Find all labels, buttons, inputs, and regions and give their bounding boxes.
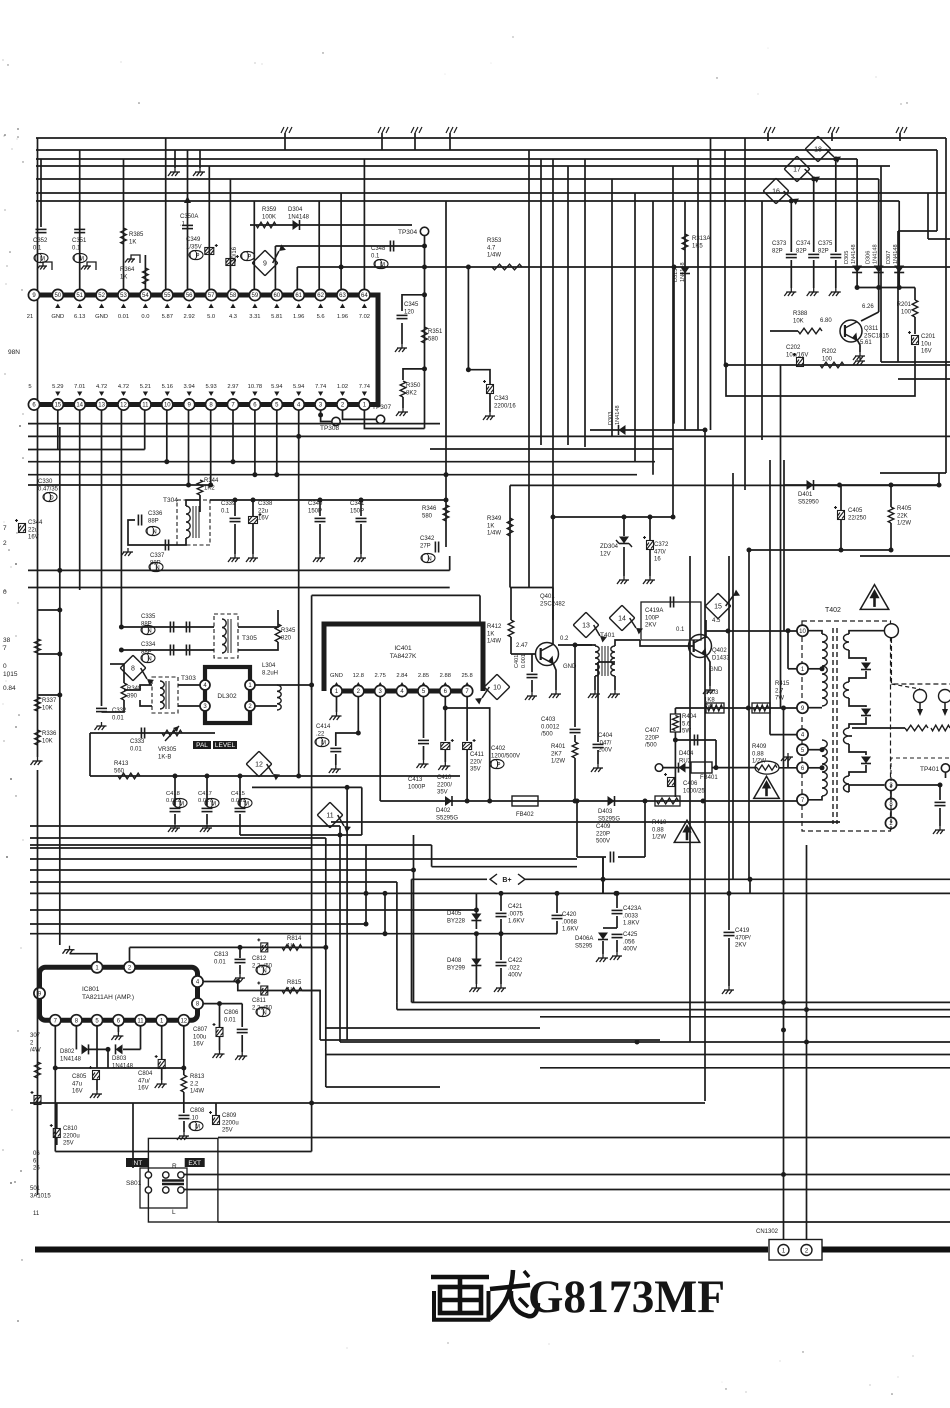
- svg-text:8: 8: [131, 665, 135, 672]
- wire bot bus 1151: [55, 1151, 311, 1153]
- T402 top-right terminal: [884, 624, 898, 638]
- wire gnd stub R409: [787, 757, 789, 768]
- junction v340 top: [338, 833, 343, 838]
- svg-text:DL302: DL302: [217, 693, 237, 700]
- IC301 pin 5: [271, 399, 282, 410]
- chassis mark 3: [411, 127, 422, 133]
- C414 oval: [315, 737, 329, 746]
- wire pin7 link: [808, 796, 822, 800]
- pin 60 arrow: [274, 304, 279, 309]
- IC301 pin 10: [162, 399, 173, 410]
- junction 801 mid: [575, 799, 580, 804]
- transistor Q311: [840, 320, 862, 342]
- transistor Q402: [689, 635, 712, 658]
- zener ZD304: [619, 537, 629, 544]
- junction C338: [251, 498, 256, 503]
- wire T303 left a: [124, 685, 152, 690]
- capacitor C349: [205, 244, 218, 255]
- wire R412-base: [511, 653, 536, 655]
- wire v325: [325, 838, 327, 1087]
- svg-text:12: 12: [180, 1018, 187, 1024]
- svg-text:5.94: 5.94: [271, 384, 283, 390]
- pin 57 arrow: [209, 304, 214, 309]
- svg-text:P: P: [496, 762, 500, 768]
- S801 contact 4: [145, 1187, 151, 1193]
- junction C418: [173, 774, 178, 779]
- svg-text:0.0: 0.0: [141, 314, 149, 320]
- resistor R337: [35, 697, 41, 711]
- wire bot bus 1222: [218, 1221, 950, 1223]
- wire C202 return: [726, 346, 915, 396]
- wire z361: [361, 787, 363, 835]
- C337 NPO oval: [149, 562, 163, 571]
- svg-text:T402: T402: [825, 607, 841, 614]
- wire C345 lower: [401, 323, 403, 344]
- T402 pin 9: [797, 702, 808, 713]
- node marker 15: [705, 590, 740, 619]
- junction ZD left: [551, 515, 556, 520]
- wire p12 drop: [183, 1026, 185, 1075]
- wire R404-D404: [674, 740, 676, 797]
- node marker 14: [609, 605, 643, 634]
- VR305 arrow: [165, 726, 179, 741]
- S801 wiper bar: [162, 1181, 184, 1185]
- resistor R359: [256, 222, 276, 228]
- wire v366: [365, 845, 367, 924]
- wire R348 bot: [102, 700, 125, 712]
- IC301 pin 8: [206, 399, 217, 410]
- wire pin51 riser: [79, 150, 81, 289]
- svg-text:R359100K: R359100K: [262, 207, 277, 220]
- wire p4 line 981: [203, 981, 238, 983]
- IC801 pin 6b: [113, 1015, 124, 1026]
- wire pin13 drop: [101, 410, 103, 700]
- wire C403 column: [574, 645, 576, 727]
- IC301 pin 60: [271, 289, 282, 300]
- wire p11 drop: [140, 1026, 142, 1050]
- IC301 pin 12: [118, 399, 129, 410]
- junction CN2b: [804, 1007, 809, 1012]
- junction pin63/y267: [339, 265, 344, 270]
- wire C407 right: [715, 740, 717, 768]
- pin 5 arrow: [274, 392, 279, 397]
- wire sub bus y474: [28, 474, 637, 476]
- IC401 pin2 arrow: [356, 682, 361, 687]
- IC801 pin 4: [192, 976, 203, 987]
- node marker 10: [475, 674, 510, 704]
- junction L304 out: [309, 683, 314, 688]
- wire right v881: [880, 166, 882, 362]
- junction pin10 bus: [164, 459, 169, 464]
- diode D306: [874, 266, 884, 273]
- svg-text:51: 51: [76, 293, 83, 299]
- wire pin63 riser: [340, 193, 342, 289]
- svg-text:3.94: 3.94: [184, 384, 196, 390]
- wire right v946: [945, 138, 947, 473]
- wire pin3-8: [890, 791, 892, 797]
- svg-text:M: M: [179, 801, 184, 807]
- ground C410: [438, 762, 450, 770]
- left resistor fragment: [35, 1062, 41, 1078]
- wire R415 line 708: [675, 707, 802, 709]
- wire low h1067: [540, 1067, 950, 1069]
- wire T401 prim top: [575, 645, 595, 646]
- junction C409 tap: [601, 877, 606, 882]
- wire pin56 riser: [187, 150, 189, 289]
- junction R814 out: [323, 945, 328, 950]
- wire pin53 riser: [123, 159, 125, 289]
- svg-text:98N: 98N: [8, 349, 20, 356]
- T402 pin 10: [797, 625, 808, 636]
- T305 winding: [222, 619, 226, 653]
- resistor R410: [655, 796, 680, 806]
- wire C373 column: [790, 201, 792, 252]
- wire R388 left: [770, 330, 798, 332]
- wire vertical v733: [732, 473, 734, 879]
- resistor R813: [181, 1075, 187, 1092]
- T402 pin 4: [797, 729, 808, 740]
- wire pin50 riser fragment: [40, 159, 42, 227]
- ground R202: [853, 357, 865, 365]
- svg-text:N: N: [262, 968, 266, 974]
- wire low corner 1009: [396, 1002, 398, 1009]
- junction pin7 bus: [231, 459, 236, 464]
- T402 secondary w1: [844, 634, 849, 650]
- IC401 pin1 arrow: [334, 682, 339, 687]
- svg-text:18: 18: [814, 146, 822, 153]
- svg-text:PAL: PAL: [196, 742, 208, 749]
- wire vertical v745: [744, 138, 746, 490]
- diode D307: [894, 266, 904, 273]
- capacitor C334b: [186, 645, 189, 656]
- junction C813: [238, 945, 243, 950]
- resistor VR305: [162, 730, 182, 736]
- wire bus y894: [30, 892, 950, 894]
- transistor Q401: [536, 643, 559, 666]
- capacitor C413: [418, 740, 429, 743]
- IC301 pin 49 partial: [28, 289, 39, 300]
- wire IC401 p6 drop: [444, 697, 446, 741]
- switch S801 outer box: [148, 1138, 218, 1222]
- svg-text:52: 52: [98, 293, 105, 299]
- diode D408: [471, 959, 481, 966]
- C812 NP oval: [256, 965, 270, 974]
- wire bus y924: [30, 923, 366, 925]
- transformer T402 dashed box: [802, 621, 891, 831]
- IC801 pin 5b: [91, 1015, 102, 1026]
- svg-text:55: 55: [164, 293, 171, 299]
- svg-text:P: P: [247, 254, 251, 260]
- wire pin8 drop: [210, 410, 212, 485]
- svg-text:62: 62: [317, 293, 324, 299]
- svg-text:GND: GND: [709, 667, 723, 673]
- junction CN1b: [781, 1000, 786, 1005]
- ground C343: [483, 412, 495, 420]
- wire R201 top: [914, 288, 916, 301]
- IC801 pin 12b: [178, 1015, 189, 1026]
- junction v311 1103: [309, 1101, 314, 1106]
- IC301 pin 55: [162, 289, 173, 300]
- wire v133: [132, 1103, 134, 1168]
- wire C345 branch: [402, 295, 425, 311]
- capacitor C358: [226, 255, 239, 266]
- svg-text:4.3: 4.3: [229, 314, 237, 320]
- wire R815 out: [302, 991, 320, 1041]
- wire C810 tail: [56, 1137, 58, 1145]
- svg-text:7.01: 7.01: [74, 384, 85, 390]
- junction v59 b: [57, 652, 62, 657]
- pin 51 arrow: [77, 304, 82, 309]
- pin 15 arrow: [55, 392, 60, 397]
- wire C807 col: [219, 1004, 221, 1028]
- svg-text:13: 13: [582, 622, 590, 629]
- capacitor C343: [483, 380, 494, 394]
- wire C419 col: [728, 893, 730, 930]
- wire C409 right: [644, 801, 646, 857]
- svg-text:5.16: 5.16: [162, 384, 173, 390]
- wire v59 stub a: [38, 609, 60, 611]
- svg-text:4.5: 4.5: [712, 618, 721, 624]
- wire VR stub: [89, 733, 91, 776]
- svg-text:12: 12: [120, 403, 127, 409]
- capacitor C404: [593, 744, 604, 747]
- wire pin6 link2: [808, 767, 822, 769]
- T401 primary: [595, 646, 599, 676]
- wire C409 bottom b: [618, 856, 645, 858]
- junction CN2: [804, 1040, 809, 1045]
- T402 secondary w4: [844, 776, 849, 792]
- wire bot bus 1174: [184, 1174, 950, 1176]
- IC301 pin 1: [359, 399, 370, 410]
- wire v788: [787, 631, 789, 669]
- DL302 pin 4: [200, 680, 210, 690]
- svg-text:60: 60: [273, 293, 280, 299]
- IC301 pin 11: [140, 399, 151, 410]
- IC301 body outline: [28, 295, 378, 405]
- svg-text:21: 21: [27, 314, 33, 320]
- chassis mark 7: [896, 127, 907, 133]
- IC301 pin 50: [52, 289, 63, 300]
- DL302 pin 1: [245, 680, 255, 690]
- svg-text:61: 61: [295, 293, 302, 299]
- resistor R409: [755, 761, 779, 774]
- svg-text:6.80: 6.80: [820, 318, 832, 324]
- warning triangle A: [674, 820, 700, 842]
- IC301 pin 6: [249, 399, 260, 410]
- junction p4 line: [235, 979, 240, 984]
- wire ZD top: [553, 516, 673, 518]
- wire C340 dn: [319, 524, 321, 554]
- wire C372 dn: [649, 549, 651, 576]
- wire p8 line: [203, 1003, 242, 1005]
- wire D404 line: [663, 767, 691, 769]
- C334 NPO oval: [141, 653, 155, 662]
- C359 oval: [241, 251, 255, 260]
- wire sec w4 dn: [849, 785, 884, 792]
- IC301 pin 61: [293, 289, 304, 300]
- S801 contact 3: [178, 1172, 184, 1178]
- svg-text:5.93: 5.93: [205, 384, 216, 390]
- svg-text:9: 9: [263, 260, 267, 267]
- svg-text:N: N: [147, 628, 151, 634]
- T303 core: [166, 681, 169, 709]
- junction h570 v59: [57, 568, 62, 573]
- svg-text:C3491/35V: C3491/35V: [186, 237, 202, 250]
- wire C340 up: [319, 500, 321, 516]
- svg-text:2.84: 2.84: [396, 673, 408, 679]
- wire h787: [252, 786, 362, 788]
- resistor R313A: [682, 234, 688, 250]
- wire TP304 rail: [424, 236, 426, 429]
- wire p5 drop: [96, 1026, 98, 1068]
- wire C806 tail: [241, 1035, 243, 1052]
- ground C425: [610, 952, 622, 960]
- svg-text:M: M: [321, 740, 326, 746]
- resistor R413: [118, 773, 140, 779]
- diode D401: [807, 480, 814, 490]
- svg-text:P: P: [195, 253, 199, 259]
- wire pin12 drop: [120, 410, 122, 627]
- ground T401 prim: [588, 690, 600, 698]
- wire R404 dn: [674, 732, 676, 740]
- T402 secondary w3: [844, 728, 849, 744]
- wire C420 col: [556, 893, 558, 913]
- wire v780: [780, 365, 782, 708]
- svg-text:56: 56: [186, 293, 193, 299]
- wire C414 branch: [336, 733, 359, 746]
- wire C813 tail: [239, 965, 241, 974]
- svg-text:N: N: [427, 556, 431, 562]
- wire p8b drop: [75, 1026, 77, 1050]
- wire D803 out: [123, 1048, 141, 1050]
- junction 801 r410l: [643, 799, 648, 804]
- title glyph hua (画): [431, 1277, 489, 1320]
- svg-text:5.87: 5.87: [162, 314, 173, 320]
- wire Q402 base: [640, 640, 693, 646]
- junction D303: [703, 428, 708, 433]
- wire top bus 5: [36, 178, 879, 180]
- node marker 18: [805, 136, 841, 163]
- wire VR row: [90, 732, 215, 734]
- IC301 pin 57: [206, 289, 217, 300]
- transformer T305 box: [214, 614, 238, 658]
- junction D306 low: [876, 285, 881, 290]
- ground C332: [95, 722, 107, 730]
- pin 53 arrow: [121, 304, 126, 309]
- ground Q402 emitter: [703, 686, 715, 694]
- wire low h1055: [326, 1054, 950, 1056]
- capacitor C332: [96, 708, 107, 711]
- wire v784 lower: [783, 485, 785, 631]
- wire sec D3 out: [849, 765, 866, 776]
- capacitor C418: [170, 808, 181, 811]
- wire C404 tail: [597, 750, 599, 764]
- wire C415 tail: [239, 814, 241, 835]
- wire T303-DL302 a: [178, 684, 200, 686]
- wire antenna stub 5: [767, 133, 769, 141]
- wire T303 left b: [140, 700, 152, 706]
- wire p1b drop: [161, 1026, 163, 1060]
- capacitor C333: [141, 728, 144, 739]
- svg-text:S801: S801: [126, 1180, 142, 1187]
- capacitor C351: [74, 229, 85, 232]
- ground C340: [313, 554, 325, 562]
- T402 pin 7: [797, 794, 808, 805]
- junction D802/D803: [106, 1047, 111, 1052]
- resistor R202: [820, 362, 844, 368]
- pin 52 arrow: [99, 304, 104, 309]
- wire S801 feed R: [183, 1174, 185, 1177]
- svg-text:M: M: [244, 801, 249, 807]
- wire h595: [312, 594, 480, 596]
- capacitor C808: [179, 1115, 190, 1118]
- junction coil p6: [820, 765, 825, 770]
- svg-text:57: 57: [208, 293, 215, 299]
- wire B+ left: [411, 879, 413, 1002]
- resistor R364: [143, 268, 149, 284]
- capacitor C419A: [670, 597, 673, 608]
- node marker 12: [246, 751, 280, 780]
- svg-text:11: 11: [142, 403, 149, 409]
- T305 core: [228, 619, 231, 653]
- capacitor C335a: [170, 622, 173, 633]
- wire R405 up: [890, 485, 892, 507]
- wire C409 left: [576, 801, 578, 857]
- IC301 pin 64: [359, 289, 370, 300]
- resistor R349: [507, 518, 513, 536]
- IC801 pin 1b: [156, 1015, 167, 1026]
- svg-text:C341150P: C341150P: [350, 501, 365, 514]
- wire low h1040: [320, 1039, 660, 1041]
- diode sec D1: [861, 663, 871, 670]
- node marker 11: [317, 802, 351, 832]
- wire diode row link: [55, 1067, 184, 1069]
- wire C421 tail: [500, 919, 502, 934]
- junction d18: [833, 157, 838, 162]
- pin 61 arrow: [296, 304, 301, 309]
- svg-text:T401: T401: [600, 632, 615, 639]
- svg-text:FB402: FB402: [516, 812, 534, 818]
- junction p6 801: [487, 799, 492, 804]
- svg-text:5.21: 5.21: [140, 384, 151, 390]
- wire R350 lower: [402, 397, 404, 408]
- svg-text:5.81: 5.81: [271, 314, 282, 320]
- resistor R351: [422, 327, 428, 343]
- junction B+ 750: [748, 877, 753, 882]
- svg-text:10/16: 10/16: [232, 246, 238, 262]
- title glyph long (龙): [490, 1270, 538, 1319]
- wire R348 up: [123, 664, 125, 683]
- IC301 pin 58: [227, 289, 238, 300]
- wire v340: [339, 826, 341, 1042]
- svg-text:7: 7: [3, 525, 7, 532]
- wire D303 line: [590, 429, 705, 431]
- pin 11 arrow: [143, 392, 148, 397]
- diode D404: [679, 763, 686, 773]
- wire v59 stub b: [38, 653, 60, 655]
- wire sec w2 dn: [849, 698, 866, 707]
- wire low h1016: [540, 1016, 950, 1018]
- svg-text:5.29: 5.29: [52, 384, 63, 390]
- wire long h570: [28, 569, 450, 571]
- svg-text:GND: GND: [95, 314, 108, 320]
- junction p12 1068: [181, 1066, 186, 1071]
- IC401 pin7 arrow: [465, 682, 470, 687]
- svg-text:CN1302: CN1302: [756, 1229, 779, 1235]
- wire pin4 drop: [298, 410, 300, 436]
- wire C404 link: [598, 661, 615, 663]
- T402 pin 1: [797, 663, 808, 674]
